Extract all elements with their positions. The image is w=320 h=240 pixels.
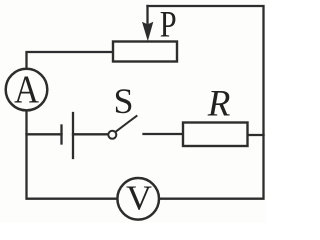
svg-text:A: A [14,68,39,112]
svg-text:S: S [114,81,134,121]
svg-text:V: V [126,178,152,217]
svg-text:R: R [207,83,231,124]
svg-text:P: P [160,5,177,45]
